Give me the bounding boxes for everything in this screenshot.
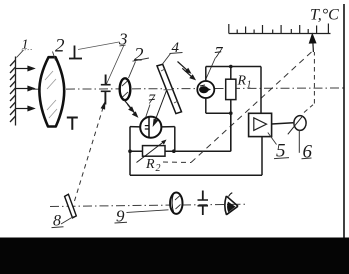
ray arrow middle <box>16 86 34 90</box>
temperature scale <box>229 24 331 34</box>
meter 6 <box>288 116 306 135</box>
label 8 <box>52 213 74 230</box>
label R1 <box>237 74 252 91</box>
plane mark bottom (T) <box>67 118 78 130</box>
lamp sighting arrow <box>153 91 166 126</box>
photodetector 7 <box>197 81 214 98</box>
linkage meter to scale <box>304 105 313 113</box>
beam arrows to lamp <box>124 100 138 117</box>
label 7 (lamp) <box>146 93 156 118</box>
svg-text:R: R <box>145 157 155 172</box>
svg-text:R: R <box>237 74 247 89</box>
label 3 <box>78 29 128 84</box>
condenser lens 2 <box>120 78 131 100</box>
svg-text:6: 6 <box>303 142 313 163</box>
tilted glass plate 4 <box>157 64 182 113</box>
label 2 <box>53 36 66 61</box>
label 6 <box>299 130 312 163</box>
reference beam dashed <box>75 105 105 202</box>
observer eye <box>225 193 238 215</box>
mirror 8 <box>65 194 77 218</box>
svg-text:7: 7 <box>215 45 224 62</box>
eyepiece lens 9 <box>170 193 182 214</box>
film frame black bar <box>0 238 349 274</box>
label 4 <box>163 40 183 64</box>
rheostat R2 <box>137 140 167 163</box>
eyepiece diaphragm <box>198 191 209 216</box>
svg-text:T,°C: T,°C <box>310 7 339 24</box>
beam arrows to photodetector <box>178 62 195 80</box>
objective lens 2 <box>39 57 64 126</box>
photodetector wiring <box>206 67 261 152</box>
svg-text:1: 1 <box>247 80 252 91</box>
field diaphragm (slit) <box>101 75 111 105</box>
linkage diagonal to scale <box>191 52 312 163</box>
amplifier 5 <box>249 113 272 136</box>
label 7 (photodetector) <box>205 45 224 82</box>
plane mark top (inverted T) <box>69 46 82 59</box>
film frame edge line <box>343 4 345 238</box>
reference beam arrowhead <box>101 101 106 110</box>
label R2 <box>145 157 161 174</box>
label 9 <box>115 206 169 225</box>
pointer arrow <box>310 34 316 52</box>
linkage dashes from R2 <box>163 161 191 164</box>
ray arrow top <box>16 66 34 70</box>
source wall (hatched) <box>10 57 16 126</box>
junction dots <box>128 65 232 153</box>
svg-text:2: 2 <box>55 36 65 57</box>
resistor R1 <box>226 79 236 99</box>
label 5 <box>268 133 289 162</box>
main optical axis <box>33 88 344 89</box>
label 2 (condenser lens) <box>129 45 149 79</box>
svg-text:2: 2 <box>156 163 161 174</box>
amplifier wires <box>262 123 293 175</box>
lower optical axis <box>50 204 248 206</box>
label 1 <box>17 38 33 58</box>
pyrometer lamp 7 <box>140 117 161 138</box>
lamp bridge wiring <box>130 113 262 175</box>
ray arrow bottom <box>16 106 34 110</box>
